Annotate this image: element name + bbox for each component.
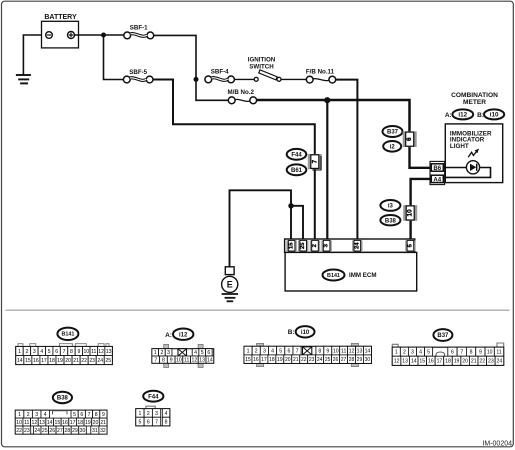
svg-text:2: 2: [27, 412, 30, 418]
svg-text:20: 20: [462, 359, 468, 365]
svg-text:1: 1: [18, 412, 21, 418]
svg-text:12: 12: [32, 420, 38, 426]
svg-text:IMM ECM: IMM ECM: [349, 272, 377, 279]
svg-text:1: 1: [18, 349, 21, 355]
battery: [42, 21, 79, 48]
svg-text:22: 22: [81, 358, 87, 364]
svg-text:4: 4: [40, 349, 43, 355]
pin 5: [136, 417, 144, 426]
svg-text:19: 19: [454, 359, 460, 365]
connector B141 pin grid: [18, 344, 109, 347]
svg-text:14: 14: [411, 359, 417, 365]
connector i12 pin grid: [164, 344, 203, 367]
ground connector square: [225, 267, 234, 275]
pin 25: [41, 426, 49, 434]
svg-text:15: 15: [245, 357, 251, 363]
pin 26: [49, 426, 57, 434]
pin 2: [144, 409, 152, 418]
svg-text:1: 1: [139, 411, 142, 417]
svg-text:21: 21: [100, 420, 106, 426]
pin 30: [363, 355, 371, 364]
svg-text:B141: B141: [61, 332, 74, 338]
svg-text:7: 7: [154, 357, 157, 363]
connector label i10 (meter B): [484, 109, 504, 119]
svg-text:5: 5: [427, 350, 430, 356]
pin 14: [206, 356, 214, 363]
svg-text:8: 8: [95, 412, 98, 418]
pin 15: [54, 418, 62, 426]
svg-text:15: 15: [419, 359, 425, 365]
svg-text:18: 18: [49, 358, 55, 364]
pin 19: [452, 356, 461, 365]
pin 12: [392, 356, 401, 365]
pin 4: [192, 349, 199, 357]
svg-text:2: 2: [147, 411, 150, 417]
svg-text:18: 18: [269, 357, 275, 363]
svg-text:5: 5: [201, 350, 204, 356]
pin 23: [487, 356, 496, 365]
svg-text:8: 8: [318, 348, 321, 354]
pin 30: [79, 426, 87, 434]
fuse SBF-5: [123, 76, 153, 83]
connector label B141 (ECM): [323, 270, 345, 281]
pin 6: [53, 347, 60, 356]
indicator flash arrow: [468, 149, 479, 158]
ignition switch label: [248, 57, 276, 71]
svg-text:30: 30: [80, 428, 86, 434]
junction battery bus: [101, 33, 106, 38]
svg-text:6: 6: [55, 349, 58, 355]
svg-text:12: 12: [192, 357, 198, 363]
svg-text:19: 19: [57, 358, 63, 364]
svg-text:B61: B61: [291, 168, 303, 174]
pin 2: [400, 347, 408, 356]
ECM pin header strip: [285, 239, 415, 252]
pin 13: [38, 418, 46, 426]
ground point E: [222, 276, 238, 292]
svg-text:10: 10: [16, 420, 22, 426]
ECM pin 25: [298, 240, 308, 251]
pin 22: [478, 356, 487, 365]
svg-text:22: 22: [301, 357, 307, 363]
B38 notch: [53, 411, 68, 415]
svg-text:22: 22: [16, 428, 22, 434]
svg-text:1: 1: [247, 348, 250, 354]
pin 15: [418, 356, 427, 365]
pin 12: [31, 418, 39, 426]
pin 9: [324, 346, 332, 355]
connector label i10 (pin grid): [296, 326, 315, 337]
pin 15: [24, 356, 32, 365]
svg-text:METER: METER: [463, 99, 486, 106]
pin 7: [152, 417, 160, 426]
wire SBF-4 to ignition switch: [234, 78, 254, 80]
pin 25: [104, 356, 112, 365]
svg-text:LIGHT: LIGHT: [450, 143, 469, 150]
svg-text:27: 27: [57, 428, 63, 434]
svg-text:24: 24: [34, 428, 40, 434]
svg-text:A:: A:: [165, 332, 172, 339]
pin 8: [93, 410, 100, 418]
connector B37 pin grid: [392, 343, 503, 347]
pin 5: [71, 410, 78, 418]
pin 20: [92, 418, 100, 426]
ECM pin 2: [310, 240, 320, 251]
svg-text:SBF-1: SBF-1: [130, 25, 148, 32]
pin 14: [363, 346, 371, 355]
svg-text:10: 10: [333, 348, 339, 354]
pin 11: [90, 347, 97, 356]
connector label B61: [287, 164, 307, 175]
svg-text:9: 9: [77, 349, 80, 355]
svg-text:21: 21: [293, 357, 299, 363]
pin 21: [292, 355, 300, 364]
svg-text:4: 4: [271, 348, 274, 354]
pin 5: [199, 349, 206, 357]
pin 24: [495, 356, 504, 365]
svg-text:14: 14: [207, 357, 213, 363]
pin 24: [316, 355, 324, 364]
pin 10: [83, 347, 90, 356]
pin 6: [448, 347, 457, 356]
i12 keyway: [178, 349, 187, 356]
pin 16: [32, 356, 40, 365]
svg-text:7: 7: [63, 349, 66, 355]
pin 14: [409, 356, 418, 365]
svg-text:3: 3: [155, 411, 158, 417]
svg-text:8: 8: [165, 419, 168, 425]
pin 5: [425, 347, 433, 356]
svg-text:3: 3: [33, 349, 36, 355]
svg-text:A4: A4: [433, 177, 441, 184]
svg-text:24: 24: [317, 357, 323, 363]
pin 4: [38, 347, 45, 356]
pin 24: [96, 356, 104, 365]
connector label F44: [287, 149, 307, 160]
connector label B37: [383, 126, 403, 137]
pin B6: [431, 164, 443, 172]
pin 18: [444, 356, 453, 365]
svg-text:7: 7: [311, 159, 318, 163]
junction ground wire: [288, 203, 293, 208]
svg-text:32: 32: [100, 428, 106, 434]
ECM pin 3: [321, 240, 331, 251]
svg-text:12: 12: [394, 359, 400, 365]
connector label B38 (pin grid): [53, 392, 72, 403]
svg-text:10: 10: [83, 349, 89, 355]
svg-text:B38: B38: [57, 396, 69, 402]
combination meter label: [451, 92, 498, 106]
connector label i3: [380, 200, 400, 211]
svg-text:5: 5: [73, 412, 76, 418]
pin 12: [191, 356, 199, 363]
svg-text:9: 9: [326, 348, 329, 354]
pin 7: [60, 347, 67, 356]
svg-text:B6: B6: [433, 165, 441, 172]
svg-text:i3: i3: [388, 204, 394, 210]
connector label B38: [380, 215, 400, 225]
junction to ECM pin 3: [324, 97, 330, 103]
svg-text:7: 7: [296, 348, 299, 354]
pin 8: [160, 356, 168, 363]
svg-text:20: 20: [285, 357, 291, 363]
svg-text:29: 29: [357, 357, 363, 363]
pin 9: [167, 356, 175, 363]
svg-text:3: 3: [167, 350, 170, 356]
svg-text:21: 21: [73, 358, 79, 364]
svg-text:13: 13: [39, 420, 45, 426]
fuse SBF-4: [205, 76, 235, 83]
svg-text:A:: A:: [445, 112, 452, 119]
svg-text:i2: i2: [390, 144, 396, 150]
pin 9: [100, 410, 107, 418]
svg-text:B38: B38: [385, 218, 397, 224]
fuse M/B No.2: [228, 97, 256, 104]
svg-text:7: 7: [155, 419, 158, 425]
pin 20: [461, 356, 470, 365]
pin 31: [91, 426, 99, 434]
svg-text:4: 4: [194, 350, 197, 356]
pin 16: [427, 356, 436, 365]
svg-text:11: 11: [496, 350, 501, 356]
svg-text:21: 21: [471, 359, 477, 365]
svg-text:5: 5: [279, 348, 282, 354]
svg-text:11: 11: [341, 348, 346, 354]
pin 10: [175, 356, 183, 363]
pin 5: [277, 346, 285, 355]
ECM pin 5: [405, 240, 415, 251]
pin 21: [99, 418, 107, 426]
svg-text:10: 10: [407, 209, 414, 217]
pin 7: [457, 347, 466, 356]
pin 27: [340, 355, 348, 364]
svg-text:4: 4: [419, 350, 422, 356]
connector B38 pin grid: [15, 410, 107, 434]
B37 notch: [436, 352, 445, 356]
svg-text:23: 23: [24, 428, 30, 434]
svg-text:13: 13: [357, 348, 363, 354]
pin 3: [152, 409, 160, 418]
connector i10 pin grid: [257, 343, 359, 366]
wire pin 25 branch: [291, 206, 303, 240]
svg-text:19: 19: [277, 357, 283, 363]
svg-text:17: 17: [70, 420, 76, 426]
pin 11: [183, 356, 191, 363]
pin 10: [332, 346, 340, 355]
pin 11: [340, 346, 348, 355]
wire junction down to M/B No.2: [196, 79, 228, 100]
svg-text:16: 16: [428, 359, 434, 365]
wire LED loop to A4: [443, 168, 490, 178]
pin 32: [99, 426, 107, 434]
pin 18: [48, 356, 56, 365]
pin 14: [46, 418, 54, 426]
pin 20: [284, 355, 292, 364]
wire A4 to ECM pin 5 via i3/B38: [411, 179, 432, 240]
pin 2: [252, 346, 260, 355]
svg-text:20: 20: [65, 358, 71, 364]
wire B6 to LED: [443, 167, 466, 169]
svg-text:B:: B:: [288, 329, 295, 336]
pin 23: [88, 356, 96, 365]
svg-text:29: 29: [72, 428, 78, 434]
svg-text:B37: B37: [437, 333, 449, 339]
connector label B141 (pin grid): [57, 328, 78, 340]
pin 13: [105, 347, 112, 356]
svg-text:3: 3: [35, 412, 38, 418]
pin 23: [308, 355, 316, 364]
svg-text:B37: B37: [387, 130, 399, 136]
svg-text:2: 2: [160, 350, 163, 356]
pin 6: [206, 349, 213, 357]
svg-text:7: 7: [460, 350, 463, 356]
svg-text:14: 14: [365, 348, 371, 354]
svg-text:17: 17: [261, 357, 267, 363]
pin 1: [136, 409, 144, 418]
svg-text:6: 6: [406, 137, 413, 141]
pin 10: [485, 347, 494, 356]
separator line: [6, 309, 510, 311]
svg-text:17: 17: [437, 359, 443, 365]
pin 26: [332, 355, 340, 364]
pin 22: [80, 356, 88, 365]
pin 13: [356, 346, 364, 355]
svg-text:7: 7: [88, 412, 91, 418]
inline connector i3/B38 pin 10: [403, 205, 417, 221]
pin A4: [431, 175, 443, 183]
pin 4: [162, 409, 170, 418]
svg-text:IM-00204: IM-00204: [482, 441, 512, 448]
pin 8: [68, 347, 75, 356]
svg-text:4: 4: [165, 411, 168, 417]
svg-text:20: 20: [93, 420, 99, 426]
pin 29: [355, 355, 363, 364]
pin 15: [244, 355, 252, 364]
svg-text:16: 16: [33, 358, 39, 364]
pin 6: [78, 410, 85, 418]
svg-text:3: 3: [411, 350, 414, 356]
wire M/B No.2 to combination meter B6: [257, 100, 410, 132]
pin 3: [32, 410, 41, 418]
pin 1: [15, 410, 24, 418]
pin 1: [16, 347, 23, 356]
pin 24: [33, 426, 41, 434]
svg-text:10: 10: [176, 357, 182, 363]
svg-text:2: 2: [26, 349, 29, 355]
svg-text:25: 25: [300, 242, 306, 249]
pin 3: [408, 347, 416, 356]
pin 12: [97, 347, 104, 356]
wire junction to ECM pin 3: [326, 100, 328, 240]
pin 4: [268, 346, 276, 355]
pin 25: [324, 355, 332, 364]
pin 16: [61, 418, 69, 426]
fuse F/B No.11: [306, 76, 335, 83]
pin 2: [23, 347, 30, 356]
pin 1: [152, 349, 159, 357]
svg-text:28: 28: [65, 428, 71, 434]
combination meter box: [445, 124, 502, 183]
pin 8: [316, 346, 324, 355]
pin 2: [159, 349, 166, 357]
svg-text:17: 17: [41, 358, 47, 364]
wire connector to B6: [410, 147, 431, 168]
svg-text:11: 11: [91, 349, 96, 355]
svg-text:11: 11: [184, 357, 189, 363]
svg-text:11: 11: [24, 420, 29, 426]
immobilizer indicator light label: [450, 130, 492, 150]
svg-text:6: 6: [451, 350, 454, 356]
junction SBF-4/M-B No.2: [194, 77, 199, 82]
svg-text:6: 6: [287, 348, 290, 354]
pin 21: [469, 356, 478, 365]
svg-text:6: 6: [80, 412, 83, 418]
svg-text:16: 16: [62, 420, 68, 426]
ignition switch: [254, 70, 281, 81]
pin 17: [260, 355, 268, 364]
pin 11: [494, 347, 503, 356]
inline connector B37/i2 pin 6: [403, 131, 417, 147]
svg-text:18: 18: [77, 420, 83, 426]
pin 3: [31, 347, 38, 356]
pin 8: [466, 347, 475, 356]
svg-text:B141: B141: [327, 273, 340, 279]
connector label i12 (meter A): [452, 109, 473, 119]
svg-text:23: 23: [89, 358, 95, 364]
pin 4: [416, 347, 424, 356]
pin 19: [84, 418, 92, 426]
pin 10: [15, 418, 23, 426]
svg-text:F44: F44: [148, 394, 159, 400]
svg-text:23: 23: [488, 359, 494, 365]
pin 17: [69, 418, 77, 426]
pin 7: [85, 410, 92, 418]
pin 13: [198, 356, 206, 363]
svg-text:13: 13: [199, 357, 205, 363]
pin 22: [300, 355, 308, 364]
svg-text:24: 24: [97, 358, 103, 364]
svg-text:9: 9: [102, 412, 105, 418]
pin 29: [71, 426, 79, 434]
pin 4: [41, 410, 50, 418]
pin 2: [24, 410, 33, 418]
svg-text:i12: i12: [458, 112, 467, 119]
svg-text:30: 30: [365, 357, 371, 363]
svg-text:13: 13: [106, 349, 112, 355]
pin 14: [16, 356, 24, 365]
svg-text:18: 18: [445, 359, 451, 365]
svg-text:26: 26: [49, 428, 55, 434]
connector label B37 (pin grid): [433, 329, 452, 341]
svg-text:i10: i10: [301, 330, 310, 336]
wire ECM pins 15/25 to ground: [230, 190, 292, 266]
svg-text:24: 24: [354, 242, 360, 249]
pin 28: [64, 426, 72, 434]
svg-text:i12: i12: [179, 332, 188, 338]
connector label i2: [383, 141, 401, 152]
pin 18: [268, 355, 276, 364]
svg-text:9: 9: [170, 357, 173, 363]
svg-text:F/B No.11: F/B No.11: [306, 69, 335, 76]
svg-text:i10: i10: [490, 112, 499, 119]
ECM pin 24: [352, 240, 362, 251]
svg-text:8: 8: [70, 349, 73, 355]
wire SBF-1 to SBF-4 branch: [154, 35, 196, 77]
connector label F44 (pin grid): [143, 391, 163, 402]
svg-text:6: 6: [147, 419, 150, 425]
pin 6: [285, 346, 293, 355]
pin 19: [56, 356, 64, 365]
